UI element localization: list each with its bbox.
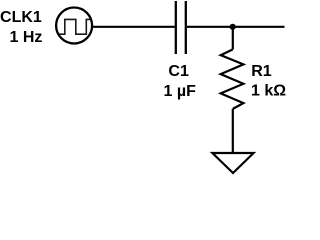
svg-text:C1: C1 <box>168 63 189 80</box>
junction node dot <box>230 24 236 30</box>
wire from node down to R1 <box>232 27 234 50</box>
wire from CLK1 to C1 <box>92 26 175 28</box>
resistor R1 zigzag <box>221 49 244 109</box>
capacitor C1 right plate <box>185 1 187 54</box>
ground symbol (open triangle) <box>212 153 253 173</box>
svg-text:CLK1: CLK1 <box>0 9 42 26</box>
svg-text:1 Hz: 1 Hz <box>9 29 42 46</box>
wire from R1 to ground <box>232 109 234 154</box>
wire from C1 to output node <box>187 26 285 28</box>
svg-text:1 kΩ: 1 kΩ <box>251 83 286 100</box>
svg-text:1 µF: 1 µF <box>164 83 197 100</box>
clock source CLK1 (circle body) <box>56 8 92 44</box>
svg-text:R1: R1 <box>251 63 272 80</box>
clock source CLK1 square-wave icon <box>59 19 91 34</box>
capacitor C1 left plate <box>175 1 177 54</box>
